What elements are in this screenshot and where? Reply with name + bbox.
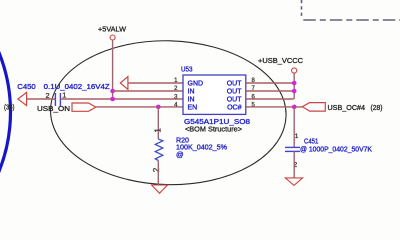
junction node rail/pin8: [292, 81, 297, 86]
wire pin6 to VCC rail: [246, 98, 294, 100]
svg-text:@: @: [176, 150, 184, 159]
svg-text:OUT: OUT: [227, 89, 243, 96]
dashed boundary line (page border, top right): [302, 0, 400, 20]
svg-text:@ 1000P_0402_50V7K: @ 1000P_0402_50V7K: [300, 144, 372, 153]
power +5VALW: [110, 35, 115, 40]
wire port to C450: [27, 98, 56, 100]
svg-text:2: 2: [46, 91, 50, 100]
IC U53 (G545A1P1U_SO8 power switch) body: [183, 75, 246, 114]
ground (R20): [152, 185, 168, 193]
junction node rail/pin7: [292, 89, 297, 94]
ground (C451): [285, 178, 302, 186]
svg-text:1: 1: [154, 128, 163, 133]
wire C450 to U53 pin3: [60, 98, 183, 100]
svg-text:(36): (36): [4, 103, 15, 112]
svg-text:<BOM Structure>: <BOM Structure>: [185, 125, 243, 134]
wire arrow to pin1: [128, 82, 183, 84]
svg-text:100K_0402_5%: 100K_0402_5%: [176, 143, 227, 152]
wire pin7 to VCC rail: [246, 90, 294, 92]
svg-text:USB_OC#4: USB_OC#4: [328, 103, 366, 112]
svg-text:1: 1: [62, 91, 66, 100]
wire pin8 to VCC rail: [246, 82, 294, 84]
wire USB_ON port to pin4: [96, 106, 183, 108]
wire EN junction to R20: [157, 107, 159, 139]
blue highlight arc (left edge): [0, 0, 11, 240]
power +USB_VCCC: [292, 68, 297, 73]
svg-text:IN: IN: [188, 89, 195, 96]
wire +5VALW rail vertical: [112, 40, 114, 99]
port USB_ON (points right): [72, 103, 96, 111]
wire VCC rail vertical: [293, 73, 295, 99]
wire C451 to ground: [293, 151, 295, 178]
svg-text:0.1U_0402_16V4Z: 0.1U_0402_16V4Z: [44, 82, 110, 91]
wire R20 to ground: [157, 161, 159, 186]
svg-text:+USB_VCCC: +USB_VCCC: [258, 56, 304, 65]
svg-text:OUT: OUT: [227, 97, 243, 104]
capacitor C451: [285, 147, 300, 151]
svg-text:IN: IN: [188, 97, 195, 104]
junction node pin5/C451: [292, 105, 297, 110]
svg-text:+5VALW: +5VALW: [98, 25, 127, 34]
junction node rail/pin2: [110, 89, 115, 94]
capacitor C450: [55, 93, 60, 106]
svg-text:1: 1: [295, 133, 299, 140]
wire pin5 to port: [246, 106, 302, 108]
svg-text:U53: U53: [181, 65, 193, 74]
port arrow (36) left: [18, 92, 27, 105]
resistor R20: [155, 139, 163, 161]
svg-text:(28): (28): [371, 103, 383, 112]
svg-text:OC#: OC#: [227, 105, 242, 112]
black highlight oval around circuit: [49, 38, 288, 188]
svg-text:GND: GND: [188, 81, 204, 88]
svg-text:OUT: OUT: [227, 81, 243, 88]
svg-text:2: 2: [152, 167, 161, 172]
wire rail to pin2: [113, 90, 183, 92]
svg-text:USB_ON: USB_ON: [37, 104, 70, 113]
wire junction to C451: [293, 107, 295, 147]
port USB_OC#4 (points left): [302, 103, 325, 112]
svg-text:C450: C450: [17, 82, 35, 91]
junction node EN/R20: [156, 105, 161, 110]
svg-text:EN: EN: [188, 105, 198, 112]
junction node rail/pin3: [110, 97, 115, 102]
no-connect arrow pin1: [120, 77, 128, 90]
